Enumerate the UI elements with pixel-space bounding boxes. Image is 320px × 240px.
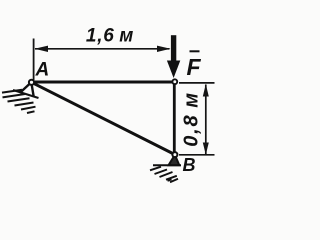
extension line above node A bbox=[33, 39, 35, 81]
node T (force application point) bbox=[172, 79, 177, 84]
svg-text:1,6 м: 1,6 м bbox=[86, 26, 134, 47]
extension line right of node T bbox=[179, 82, 215, 84]
svg-text:A: A bbox=[35, 60, 50, 81]
svg-text:F: F bbox=[187, 54, 202, 80]
beam A-T (horizontal member) bbox=[32, 81, 176, 84]
node A (pin circle) bbox=[29, 80, 34, 85]
dimension line 1,6 m bbox=[35, 46, 171, 52]
support A ground hatching bbox=[2, 90, 36, 113]
support A ground line bbox=[13, 90, 39, 98]
dimension line 0,8 m (vertical) bbox=[203, 84, 209, 155]
support B ground line bbox=[153, 164, 181, 166]
force F arrow bbox=[167, 35, 180, 78]
vertical member T-B bbox=[173, 81, 176, 155]
support B triangle bbox=[169, 155, 180, 165]
support B ground hatching bbox=[150, 167, 178, 183]
extension line right of node B bbox=[179, 154, 215, 156]
svg-text:0,8 м: 0,8 м bbox=[181, 91, 203, 147]
support A triangle bbox=[20, 82, 34, 96]
svg-text:B: B bbox=[183, 155, 196, 175]
node B (pin circle) bbox=[172, 152, 177, 157]
diagonal member A-B bbox=[32, 82, 176, 154]
